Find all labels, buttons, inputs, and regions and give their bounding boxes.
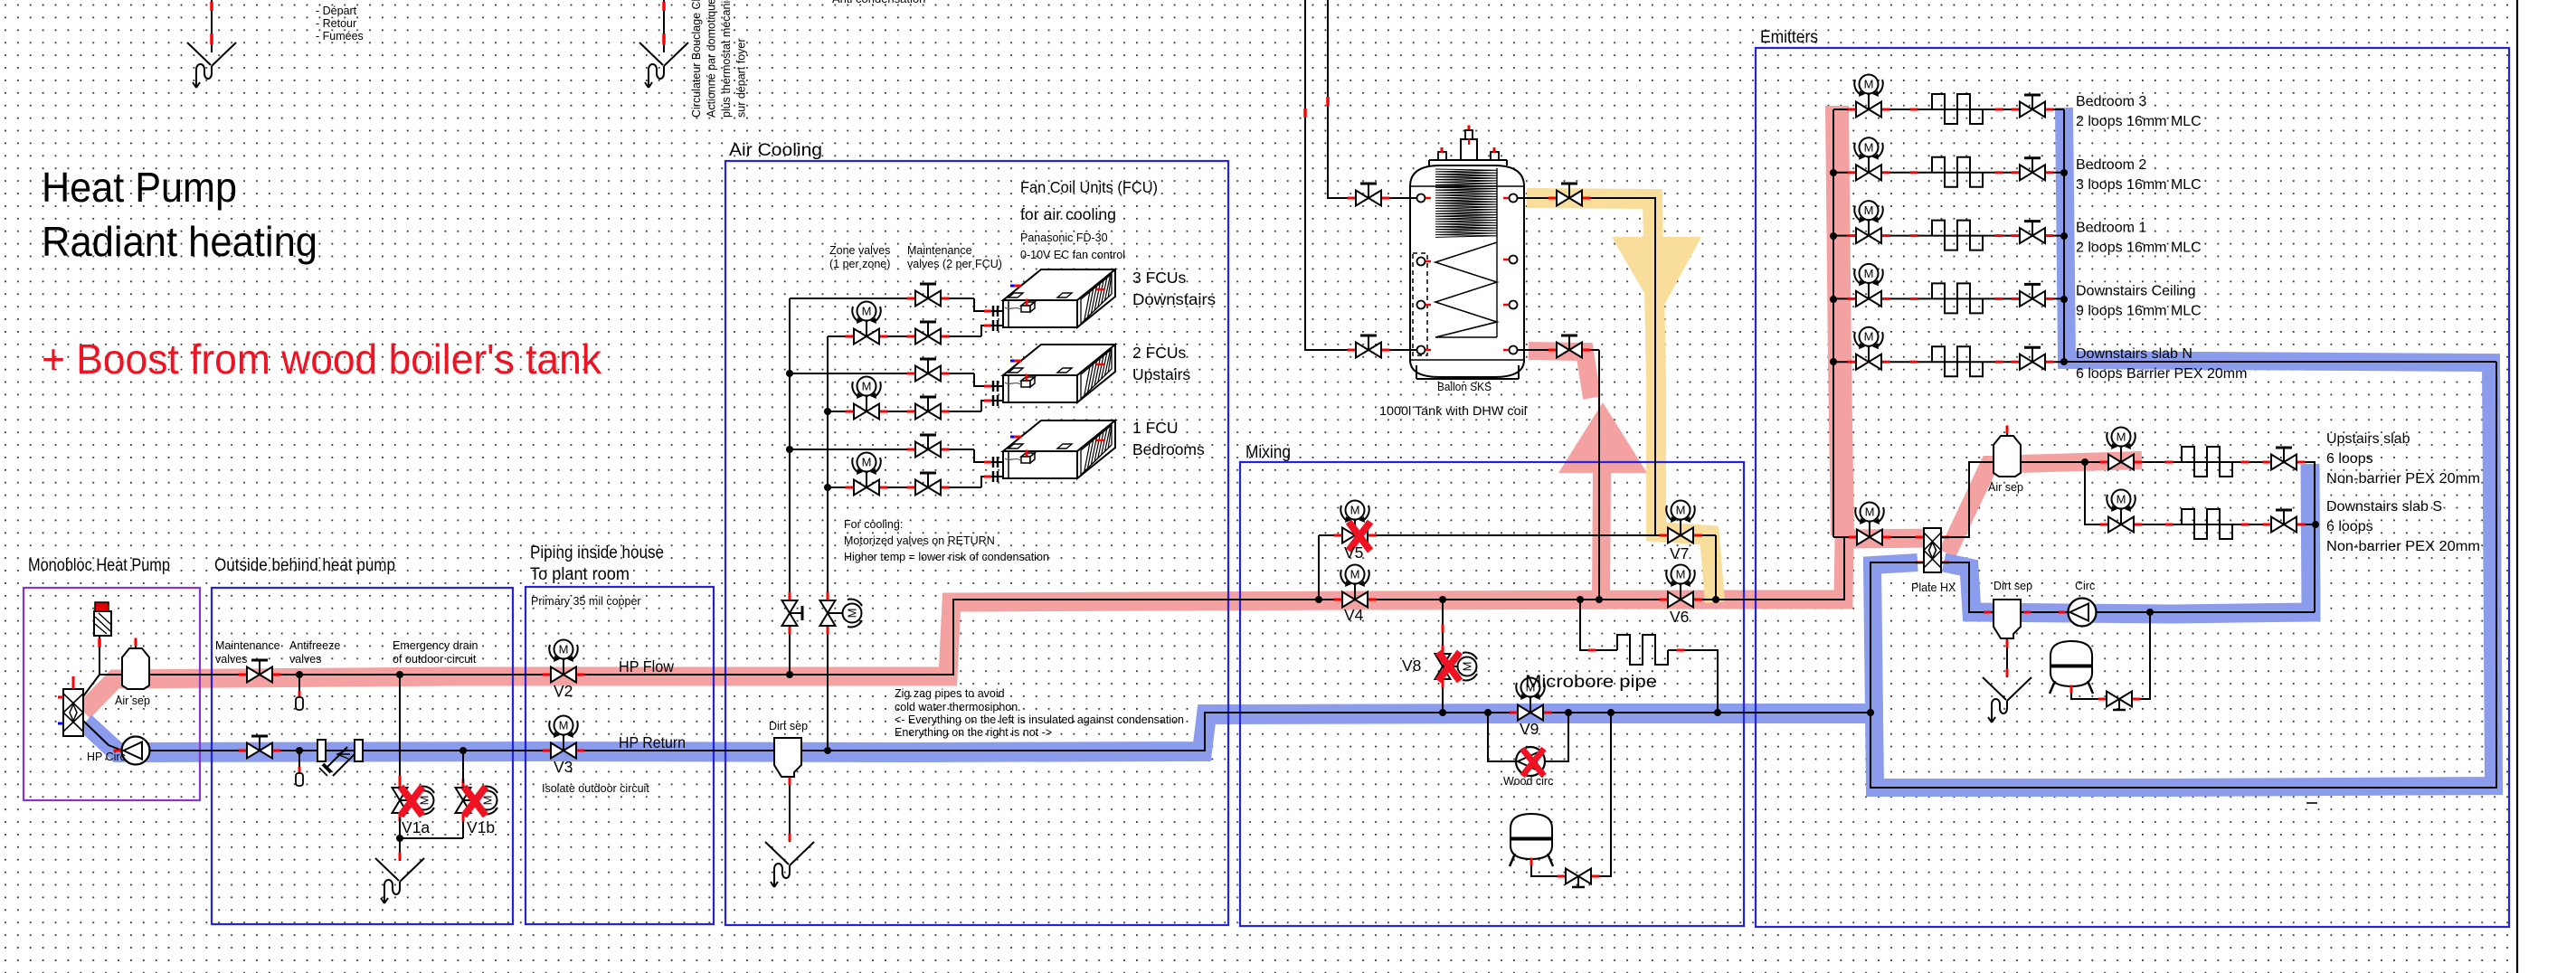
wire downstairs slab N run <box>2064 361 2496 363</box>
svg-text:M: M <box>862 380 872 393</box>
wire emitter row Bedroom 3 <box>1833 109 2064 110</box>
svg-text:Higher temp = lower risk of c: Higher temp = lower risk of condensation <box>844 551 1049 563</box>
wire tank hot branch red band <box>1529 351 1592 398</box>
tank lower coil <box>1435 242 1497 337</box>
svg-text:M: M <box>2117 493 2126 506</box>
svg-text:6 loops: 6 loops <box>2326 519 2373 534</box>
valve air cooling supply isolation <box>789 592 791 600</box>
wire top-left chimney sensor line <box>211 0 213 52</box>
dirt separator primary <box>774 738 801 777</box>
valve balancing Bedroom 1 <box>2012 234 2020 237</box>
wire emitters supply header <box>1833 109 1834 537</box>
svg-text:V4: V4 <box>1344 606 1364 624</box>
svg-text:Circulateur Bouclage Chauffe: Circulateur Bouclage Chauffe <box>690 0 703 118</box>
svg-text:M: M <box>1676 568 1686 581</box>
svg-text:Zone valves: Zone valves <box>829 244 890 257</box>
heat pump unit <box>63 689 83 736</box>
wire right circuit return <box>1941 562 2315 612</box>
pump Circ right <box>2069 599 2097 627</box>
svg-text:Air sep: Air sep <box>115 694 150 707</box>
svg-text:2 loops 16mm MLC: 2 loops 16mm MLC <box>2076 241 2202 256</box>
svg-text:(1 per zone): (1 per zone) <box>829 258 890 270</box>
svg-text:Upstairs: Upstairs <box>1132 365 1190 383</box>
wire drain drop <box>399 838 401 861</box>
emitter loop Bedroom 3 <box>1932 94 1983 124</box>
svg-text:M: M <box>862 305 872 318</box>
wire HP flow main <box>83 537 1924 696</box>
flow arrow red up <box>1558 402 1647 473</box>
svg-text:valves: valves <box>215 653 247 666</box>
svg-text:Piping inside house: Piping inside house <box>530 543 664 562</box>
svg-text:M: M <box>862 456 872 469</box>
box Emitters <box>1756 48 2509 927</box>
wire right circuit return blue band <box>1944 464 2311 614</box>
svg-text:Bedroom 2: Bedroom 2 <box>2076 157 2146 173</box>
air separator Air sep <box>135 638 137 648</box>
svg-text:V1b: V1b <box>467 818 495 836</box>
svg-text:Upstairs slab: Upstairs slab <box>2326 431 2410 447</box>
svg-text:3 FCUs: 3 FCUs <box>1132 269 1187 287</box>
wire emitters return + right side loop thick blue band <box>1872 108 2494 788</box>
valve V9 <box>1510 712 1518 714</box>
valve right vessel drain <box>2098 698 2107 701</box>
svg-text:- Retour: - Retour <box>316 17 356 30</box>
valve tank boost <box>1548 197 1557 200</box>
wire downstairs slab S branch <box>2081 458 2088 466</box>
wire FCU return header <box>827 336 829 751</box>
valve upstairs slab motorized <box>2100 461 2108 464</box>
wire tank left upper <box>1328 0 1416 198</box>
svg-text:Air Cooling: Air Cooling <box>729 141 822 160</box>
valve zone motorized row 3 <box>846 486 854 489</box>
pump HP Circ <box>114 750 122 752</box>
valve air cooling return isolation <box>827 592 829 600</box>
svg-text:sur départ foyer: sur départ foyer <box>735 38 748 118</box>
expansion vessel right <box>2050 641 2092 686</box>
page border <box>2516 0 2518 973</box>
svg-text:V6: V6 <box>1670 608 1689 626</box>
tank ports <box>1417 194 1425 203</box>
pump wood circ <box>1516 747 1545 776</box>
box Outside behind heat pump <box>212 588 513 924</box>
svg-text:Primary 35 mil copper: Primary 35 mil copper <box>531 595 641 608</box>
svg-text:Outside behind heat pump: Outside behind heat pump <box>214 556 395 575</box>
wire FCU row 3 supply <box>790 449 974 450</box>
tank skirt <box>1416 365 1417 379</box>
svg-text:V2: V2 <box>554 682 573 700</box>
emitter loop upstairs slab <box>2182 447 2232 477</box>
wire FCU row 1 return <box>828 335 981 337</box>
svg-text:Plate HX: Plate HX <box>1911 581 1956 594</box>
wire emitter row Bedroom 2 <box>1833 172 2064 174</box>
y-strainer <box>317 740 326 761</box>
plate heat exchanger Plate HX <box>1924 528 1941 572</box>
svg-text:HP Flow: HP Flow <box>619 657 674 675</box>
antifreeze valve top <box>296 671 303 678</box>
wire microbore branch <box>1577 596 1584 603</box>
svg-text:M: M <box>559 719 569 732</box>
box Piping inside house <box>526 587 714 924</box>
valve maintenance supply row 1 <box>907 298 915 300</box>
svg-text:valves (2 per FCU): valves (2 per FCU) <box>907 258 1002 270</box>
wire emitters return header <box>2063 109 2065 362</box>
svg-text:M: M <box>481 796 495 806</box>
drain funnel right <box>1983 677 2006 700</box>
svg-text:Ballon SKS: Ballon SKS <box>1437 381 1492 393</box>
wire microbore to return <box>1668 650 1718 713</box>
wire second chimney line <box>663 0 665 52</box>
svg-text:Mixing: Mixing <box>1245 443 1291 462</box>
valve V3 <box>543 750 551 752</box>
svg-text:HP Circ: HP Circ <box>87 751 126 763</box>
valve maintenance flow <box>239 674 247 676</box>
valve zone motorized row 1 <box>846 335 854 338</box>
wire tank left lower <box>1305 0 1416 350</box>
valve maintenance return row 2 <box>907 411 915 413</box>
wire dirt sep drain <box>789 777 791 842</box>
svg-text:M: M <box>846 609 859 619</box>
svg-text:Antifreeze: Antifreeze <box>289 639 340 652</box>
svg-text:for air cooling: for air cooling <box>1020 205 1116 223</box>
valve tank left upper <box>1348 197 1356 200</box>
svg-text:Radiant heating: Radiant heating <box>42 218 317 265</box>
wire HP return thick blue band <box>85 713 1869 752</box>
svg-text:Microbore pipe: Microbore pipe <box>1525 673 1657 692</box>
wire wood circ bypass <box>1484 709 1492 716</box>
valve V2 <box>543 674 551 676</box>
wire FCU supply header <box>789 298 791 675</box>
fan coil unit row 3 <box>1003 420 1115 451</box>
wire V5-V7 bypass line <box>1319 534 1716 536</box>
valve motorized Downstairs slab N <box>1848 361 1856 364</box>
svg-text:Maintenance: Maintenance <box>215 639 280 652</box>
svg-text:V8: V8 <box>1402 657 1421 675</box>
wire right vessel branch <box>2146 609 2154 616</box>
svg-text:cold water thermosiphon.: cold water thermosiphon. <box>895 701 1021 713</box>
valve V4 <box>1334 599 1342 601</box>
emitter loop Downstairs Ceiling <box>1932 283 1983 313</box>
tank top fittings <box>1429 159 1507 161</box>
wire safety valve drop <box>99 636 100 675</box>
valve motorized Bedroom 3 <box>1848 109 1856 111</box>
svg-text:Downstairs Ceiling: Downstairs Ceiling <box>2076 283 2196 298</box>
valve balancing Downstairs Ceiling <box>2012 298 2020 300</box>
valve maintenance supply row 3 <box>907 449 915 451</box>
valve maintenance return row 3 <box>907 486 915 489</box>
svg-text:Bedrooms: Bedrooms <box>1132 440 1205 458</box>
fan coil unit row 2 <box>1003 345 1115 375</box>
svg-text:2 loops 16mm MLC: 2 loops 16mm MLC <box>2076 114 2202 129</box>
svg-text:M: M <box>1864 78 1874 91</box>
svg-text:Wood circ: Wood circ <box>1503 775 1553 788</box>
svg-text:To plant room: To plant room <box>530 565 630 584</box>
wire emitter row Downstairs slab N <box>1833 361 2064 363</box>
valve balancing Bedroom 2 <box>2012 171 2020 174</box>
svg-text:M: M <box>559 643 569 657</box>
fan coil unit row 1 <box>1003 269 1115 300</box>
box Monobloc Heat Pump <box>24 588 200 800</box>
tank DHW coil <box>1435 169 1497 237</box>
dirt separator right <box>1994 600 2021 638</box>
svg-text:3 loops 16mm MLC: 3 loops 16mm MLC <box>2076 177 2202 193</box>
svg-text:Circ: Circ <box>2075 580 2095 592</box>
svg-text:6 loops: 6 loops <box>2326 451 2373 467</box>
svg-text:Anti condensation: Anti condensation <box>832 0 925 5</box>
valve maintenance supply row 2 <box>907 373 915 375</box>
air separator right <box>2006 426 2008 436</box>
wire tank hot drop <box>1596 596 1603 603</box>
svg-text:Monobloc Heat Pump: Monobloc Heat Pump <box>28 556 170 575</box>
svg-text:Motorized valves on RETURN: Motorized valves on RETURN <box>844 534 995 547</box>
svg-text:valves: valves <box>289 653 321 666</box>
box Mixing <box>1240 462 1744 926</box>
svg-text:1000l Tank with DHW coil: 1000l Tank with DHW coil <box>1379 404 1527 418</box>
svg-text:Downstairs: Downstairs <box>1132 290 1216 308</box>
valve upstairs slab balancing <box>2263 461 2271 464</box>
svg-text:V1a: V1a <box>402 818 430 836</box>
emitter loop Bedroom 2 <box>1932 157 1983 187</box>
svg-text:Enerything on the right is not: Enerything on the right is not -> <box>895 726 1052 739</box>
valve vessel drain <box>1558 875 1566 878</box>
valve maintenance return row 1 <box>907 335 915 338</box>
svg-text:M: M <box>1864 267 1874 280</box>
wire upstairs slab row to return <box>2309 462 2315 612</box>
drain funnel second <box>639 43 663 65</box>
tank Ballon SKS body <box>1410 165 1524 377</box>
valve V1a <box>399 779 402 788</box>
svg-text:V9: V9 <box>1520 720 1539 738</box>
valve V8 <box>1442 646 1444 654</box>
wire V8 branch <box>1439 596 1446 603</box>
microbore pipe zigzag <box>1617 635 1668 665</box>
wire HP flow thick red band <box>83 538 1939 712</box>
emitter loop Downstairs slab N <box>1932 346 1983 376</box>
valve motorized Bedroom 1 <box>1848 234 1856 237</box>
svg-text:Panasonic FD-30: Panasonic FD-30 <box>1020 231 1108 244</box>
wire FCU row 2 return <box>828 411 981 412</box>
wire expansion vessel branch <box>1607 709 1615 716</box>
valve tank left lower <box>1348 349 1356 352</box>
valve V5 <box>1334 534 1342 537</box>
mark small dash <box>2306 802 2317 804</box>
svg-text:Downstairs slab N: Downstairs slab N <box>2076 346 2192 362</box>
svg-text:Actionné par domotique: Actionné par domotique <box>706 0 718 118</box>
valve maintenance return <box>239 750 247 752</box>
svg-text:Bedroom 3: Bedroom 3 <box>2076 94 2146 109</box>
valve motorized Bedroom 2 <box>1848 171 1856 174</box>
valve HX inlet motorized <box>1849 536 1857 539</box>
emitter loop downstairs slab S <box>2182 509 2232 539</box>
wire tank boost out <box>1518 198 1655 535</box>
svg-text:M: M <box>1865 505 1875 519</box>
svg-text:M: M <box>1350 568 1360 581</box>
svg-text:of outdoor circuit: of outdoor circuit <box>393 653 477 666</box>
svg-text:V3: V3 <box>554 758 573 776</box>
svg-text:Non-barrier PEX 20mm: Non-barrier PEX 20mm <box>2326 539 2480 554</box>
drain funnel emergency <box>375 858 399 881</box>
svg-text:M: M <box>1676 504 1686 517</box>
tank sensor pocket dashed <box>1413 253 1427 355</box>
svg-text:Heat Pump: Heat Pump <box>42 164 237 211</box>
svg-text:1 FCU: 1 FCU <box>1132 419 1179 437</box>
safety valve <box>94 611 111 636</box>
svg-text:M: M <box>1350 504 1360 517</box>
wire V1b up <box>462 751 464 783</box>
valve balancing Downstairs slab N <box>2012 361 2020 364</box>
svg-text:Emitters: Emitters <box>1760 28 1818 47</box>
svg-text:+ Boost from wood boiler's tan: + Boost from wood boiler's tank <box>42 335 602 383</box>
svg-text:2 FCUs: 2 FCUs <box>1132 344 1187 362</box>
box Air Cooling <box>725 161 1228 925</box>
valve balancing Bedroom 3 <box>2012 109 2020 111</box>
wire HP return main <box>83 713 1870 751</box>
svg-text:plus thermostat mécanique: plus thermostat mécanique <box>720 0 733 118</box>
svg-text:Bedroom 1: Bedroom 1 <box>2076 221 2146 236</box>
svg-text:M: M <box>418 796 431 806</box>
svg-text:Fan Coil Units (FCU): Fan Coil Units (FCU) <box>1020 178 1158 196</box>
wire FCU row 1 supply <box>790 298 974 299</box>
svg-text:V7: V7 <box>1670 544 1689 562</box>
wire HX red inlet <box>1833 536 1924 538</box>
wire plate HX to upstairs manifold red band <box>1947 460 2142 553</box>
flow arrow yellow down <box>1612 237 1701 316</box>
svg-text:For cooling:: For cooling: <box>844 518 903 531</box>
drain funnel top-left <box>187 43 211 65</box>
wire tank boost yellow band <box>1527 198 1715 602</box>
svg-text:M: M <box>1864 140 1874 154</box>
emitter loop Bedroom 1 <box>1932 221 1983 250</box>
svg-text:Zig zag pipes to avoid: Zig zag pipes to avoid <box>895 687 1005 700</box>
wire emitter row Bedroom 1 <box>1833 235 2064 237</box>
svg-text:6 loops Barrier PEX 20mm: 6 loops Barrier PEX 20mm <box>2076 366 2247 382</box>
valve V6 <box>1660 599 1668 601</box>
valve V1b <box>462 779 465 788</box>
svg-text:9 loops 16mm MLC: 9 loops 16mm MLC <box>2076 303 2202 318</box>
valve downstairs slab S balancing <box>2263 524 2271 526</box>
svg-text:Dirt sep: Dirt sep <box>1994 580 2032 592</box>
wire FCU row 3 return <box>828 486 981 488</box>
svg-text:<- Everything on the left is i: <- Everything on the left is insulated a… <box>895 713 1184 726</box>
svg-text:Non-barrier PEX 20mm: Non-barrier PEX 20mm <box>2326 471 2480 486</box>
wire tank hot out <box>1518 349 1599 351</box>
valve motorized Downstairs Ceiling <box>1848 298 1856 300</box>
wire V1a to drain <box>399 817 401 838</box>
svg-text:M: M <box>1461 662 1474 672</box>
svg-text:- Départ: - Départ <box>316 5 357 17</box>
svg-text:Isolate outdoor circuit: Isolate outdoor circuit <box>542 782 649 795</box>
svg-text:Downstairs slab S: Downstairs slab S <box>2326 499 2442 515</box>
svg-text:Emergency drain: Emergency drain <box>393 639 478 652</box>
drain funnel primary <box>765 842 789 864</box>
antifreeze valve bottom <box>296 747 303 754</box>
svg-text:0-10V EC fan control: 0-10V EC fan control <box>1020 249 1125 261</box>
wire emitters supply thick red band <box>1837 106 1842 535</box>
wire HX bottom left out <box>1870 362 2496 788</box>
valve tank hot <box>1548 349 1557 352</box>
svg-text:Maintenance: Maintenance <box>907 244 972 257</box>
wire right dirt sep drain <box>2006 638 2008 677</box>
svg-text:M: M <box>2117 430 2126 444</box>
svg-text:V5: V5 <box>1344 543 1363 562</box>
expansion vessel mixing <box>1511 814 1552 859</box>
wire emergency drain <box>396 671 403 678</box>
wire FCU row 2 supply <box>790 373 974 374</box>
svg-text:Air sep: Air sep <box>1988 481 2023 494</box>
valve downstairs slab S motorized <box>2100 524 2108 526</box>
svg-text:Dirt sep: Dirt sep <box>769 720 808 732</box>
svg-text:- Fumées: - Fumées <box>316 30 364 43</box>
wire emitter row Downstairs Ceiling <box>1833 298 2064 299</box>
svg-text:M: M <box>1864 330 1874 344</box>
valve V7 <box>1660 534 1668 537</box>
valve zone motorized row 2 <box>846 411 854 413</box>
wire HX to air sep riser <box>1941 462 2309 537</box>
svg-text:HP Return: HP Return <box>619 733 686 751</box>
svg-text:M: M <box>1864 203 1874 217</box>
